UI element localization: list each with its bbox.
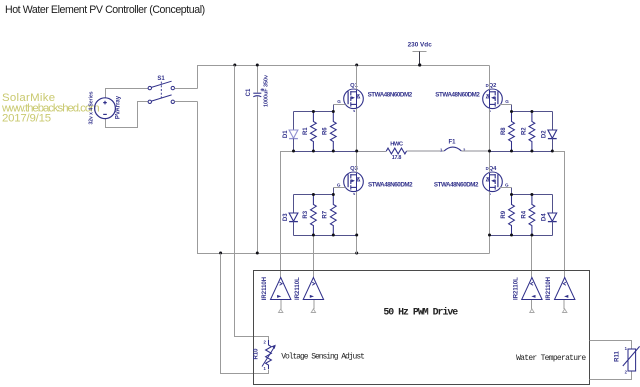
node: junction (333.3,111.5) xyxy=(332,110,335,113)
wire: fuse to phase B xyxy=(461,150,489,152)
svg-text:G: G xyxy=(337,182,341,187)
svg-text:50 Hz PWM Drive: 50 Hz PWM Drive xyxy=(383,307,458,318)
svg-text:Water Temperature: Water Temperature xyxy=(516,354,586,363)
wire: gate stub to MOSFET xyxy=(500,187,512,189)
wire: +230V top rail xyxy=(198,66,490,89)
svg-text:2: 2 xyxy=(263,340,266,345)
wire: C1 bottom lead xyxy=(257,97,259,254)
wire: Q1 source to HWC xyxy=(357,151,387,153)
wire: gate network top line (D2/R8/R2) xyxy=(512,111,553,113)
wire: gate network top line (D3/R3/R7) xyxy=(294,194,334,196)
wire: Q4 drain from phase B xyxy=(489,152,491,173)
wire: Q2 drain from top rail xyxy=(489,66,491,90)
wire: S1 pole B to bottom rail xyxy=(175,101,198,103)
svg-text:s: s xyxy=(353,109,355,113)
diode D3 xyxy=(289,195,298,236)
wire: gate stub to MOSFET xyxy=(334,187,346,189)
wire: lower-right network bottom line xyxy=(490,235,553,237)
node: junction (313.4,235) xyxy=(312,234,315,237)
svg-text:D4: D4 xyxy=(542,213,548,221)
wire: gate stub riser xyxy=(511,105,513,112)
svg-text:STWA48N60DM2: STWA48N60DM2 xyxy=(368,182,413,189)
svg-text:DQ2: DQ2 xyxy=(486,83,497,89)
wire: gate network top line (D1/R1/R6) xyxy=(294,111,334,113)
svg-text:G: G xyxy=(337,99,341,104)
thermistor R11 xyxy=(623,346,640,371)
wire: 0V bottom rail xyxy=(198,102,490,254)
node: junction (531.9,151) xyxy=(530,150,533,153)
svg-text:R3: R3 xyxy=(303,210,309,218)
diode D2 xyxy=(548,112,557,152)
svg-text:G: G xyxy=(505,99,509,104)
svg-text:IR2110L: IR2110L xyxy=(513,277,519,300)
wire: Q3 drain from phase A xyxy=(356,152,358,173)
wire: gate stub riser xyxy=(333,188,335,195)
svg-text:F1: F1 xyxy=(448,140,456,146)
wire: PV- to switch S1 xyxy=(106,102,149,128)
resistor R6 xyxy=(330,112,336,152)
wire: gate network top line (D4/R9/R4) xyxy=(512,194,553,196)
wire: gate stub riser xyxy=(333,105,335,112)
svg-text:s: s xyxy=(353,192,355,196)
svg-text:R8: R8 xyxy=(501,127,507,135)
wire: gate stub riser xyxy=(511,188,513,195)
potentiometer R10 xyxy=(262,340,276,369)
node: junction (511.5,194.5) xyxy=(510,193,513,196)
node: junction (531.9,194.5) xyxy=(530,193,533,196)
transistor Q2 STWA48N60DM2 xyxy=(483,89,503,109)
resistor R4 xyxy=(529,195,535,236)
node: junction (511.5,151) xyxy=(510,150,513,153)
svg-text:2: 2 xyxy=(463,148,466,153)
node: junction (293.5,151) xyxy=(292,150,295,153)
svg-text:2017/9/15: 2017/9/15 xyxy=(2,113,51,125)
power flag 230 Vdc xyxy=(408,42,433,66)
node: junction (313.4,194.5) xyxy=(312,193,315,196)
node: Q3 source junction xyxy=(355,252,358,255)
svg-text:R2: R2 xyxy=(521,127,527,135)
node: junction (531.9,235) xyxy=(530,234,533,237)
svg-text:IR2110H: IR2110H xyxy=(546,277,552,300)
wire: Q2 source to phase B xyxy=(489,109,491,152)
svg-text:R11: R11 xyxy=(615,351,621,362)
node: junction (552.3,151) xyxy=(551,150,554,153)
node: Q1 drain junction xyxy=(355,64,358,67)
wire: voltage sense from +rail to R10 xyxy=(235,66,269,341)
wire: R11 bottom return to box xyxy=(590,372,632,380)
wire: IR2110L(left) output riser xyxy=(313,236,315,278)
svg-text:G: G xyxy=(505,182,509,187)
node: junction (489.5,235) xyxy=(488,234,491,237)
svg-text:1: 1 xyxy=(625,346,628,351)
svg-text:1: 1 xyxy=(440,148,443,153)
fuse F1 xyxy=(444,147,461,151)
svg-text:R4: R4 xyxy=(521,210,527,218)
wire: lower-left network bottom line xyxy=(294,235,357,237)
op-amp driver U1 IR2110H xyxy=(271,278,291,313)
diode D1 xyxy=(289,112,298,152)
svg-text:IR2110H: IR2110H xyxy=(262,277,268,300)
svg-text:D3: D3 xyxy=(283,213,289,221)
wire: Q4 source to bottom rail xyxy=(489,192,491,254)
capacitor C1 xyxy=(253,88,263,97)
resistor R8 xyxy=(509,112,515,152)
node: junction (313.4,151) xyxy=(312,150,315,153)
box: 50 Hz PWM Drive module xyxy=(254,271,590,385)
svg-text:STWA48N60DM2: STWA48N60DM2 xyxy=(368,91,413,98)
svg-text:IR2110L: IR2110L xyxy=(295,277,301,300)
node: junction (511.5,111.5) xyxy=(510,110,513,113)
node: junction (333.3,194.5) xyxy=(332,193,335,196)
resistor R1 xyxy=(311,112,317,152)
node: C1 bottom junction xyxy=(256,252,259,255)
svg-text:R9: R9 xyxy=(501,210,507,218)
op-amp driver U4 IR2110H xyxy=(555,278,575,313)
wire: box to R11 top xyxy=(590,341,632,350)
svg-text:D2: D2 xyxy=(542,130,548,138)
svg-text:R10: R10 xyxy=(254,348,260,360)
node: junction (333.3,235) xyxy=(332,234,335,237)
wire: S1 pole A to top rail xyxy=(175,88,198,90)
wire: IR2110L(right) output riser xyxy=(531,236,533,278)
switch S1 (DPST) xyxy=(148,81,174,103)
resistor HWC 17.8 (heating element) xyxy=(386,148,406,154)
node: junction (511.5,235) xyxy=(510,234,513,237)
resistor R7 xyxy=(330,195,336,236)
wire: C1 top lead xyxy=(257,66,259,93)
svg-text:STWA48N60DM2: STWA48N60DM2 xyxy=(434,182,479,189)
svg-text:HWC: HWC xyxy=(390,142,404,148)
svg-text:230 Vdc: 230 Vdc xyxy=(408,42,433,49)
transistor Q4 STWA48N60DM2 xyxy=(483,172,503,192)
svg-text:R6: R6 xyxy=(323,127,329,135)
svg-text:Voltage Sensing Adjust: Voltage Sensing Adjust xyxy=(281,352,364,361)
node: R10 return on bottom rail xyxy=(219,252,222,255)
wire: HWC to fuse F1 xyxy=(407,150,445,152)
wire: Q1 source to phase A xyxy=(356,109,358,152)
node: sense tap on top rail xyxy=(233,64,236,67)
svg-text:1: 1 xyxy=(263,366,266,371)
resistor R3 xyxy=(311,195,317,236)
svg-text:Q1: Q1 xyxy=(350,83,359,89)
op-amp driver U2 IR2110L xyxy=(303,278,323,313)
node: junction (489.5,151) xyxy=(488,150,491,153)
diode D4 xyxy=(548,195,557,236)
transistor Q1 STWA48N60DM2 xyxy=(344,89,364,109)
wire: IR2110H(left) output riser xyxy=(281,152,294,278)
resistor R2 xyxy=(529,112,535,152)
wire: Q3 source to bottom rail xyxy=(356,192,358,254)
svg-text:2: 2 xyxy=(625,370,628,375)
transistor Q3 STWA48N60DM2 xyxy=(344,172,364,192)
svg-text:D1: D1 xyxy=(283,130,289,138)
wire: gate stub to MOSFET xyxy=(500,104,512,106)
node: junction (356.7,235) xyxy=(355,234,358,237)
op-amp driver U3 IR2110L xyxy=(522,278,542,313)
node: junction (313.4,111.5) xyxy=(312,110,315,113)
svg-text:STWA48N60DM2: STWA48N60DM2 xyxy=(435,91,480,98)
node: C1 top junction xyxy=(256,64,259,67)
svg-text:S1: S1 xyxy=(157,76,165,82)
PV source BT1 (PVArray) xyxy=(95,98,116,119)
wire: Q1 drain xyxy=(356,66,358,90)
wire: IR2110H(right) output riser xyxy=(553,152,565,278)
wire: phase line right segment xyxy=(490,151,565,153)
svg-text:C1: C1 xyxy=(246,88,252,96)
svg-text:17.8: 17.8 xyxy=(392,155,402,161)
wire: PV+ to switch S1 xyxy=(106,89,149,98)
svg-text:32v x 4 Series: 32v x 4 Series xyxy=(89,91,95,124)
svg-text:1000uF 350v: 1000uF 350v xyxy=(264,75,270,107)
wire: R10 return to 0V rail xyxy=(221,254,269,374)
node: junction (356.7,151) xyxy=(355,150,358,153)
svg-text:R1: R1 xyxy=(303,127,309,135)
svg-text:Q3: Q3 xyxy=(350,166,359,172)
wire: gate stub to MOSFET xyxy=(334,104,346,106)
wire: phase line left segment xyxy=(281,151,357,153)
svg-text:Hot Water Element PV Controlle: Hot Water Element PV Controller (Concept… xyxy=(5,4,205,16)
node: junction (333.3,151) xyxy=(332,150,335,153)
node: 230Vdc junction dot xyxy=(418,63,421,66)
svg-text:PVArray: PVArray xyxy=(116,95,122,119)
resistor R9 xyxy=(509,195,515,236)
svg-text:DQ4: DQ4 xyxy=(486,166,498,172)
node: junction (531.9,111.5) xyxy=(530,110,533,113)
svg-text:R7: R7 xyxy=(323,210,329,218)
